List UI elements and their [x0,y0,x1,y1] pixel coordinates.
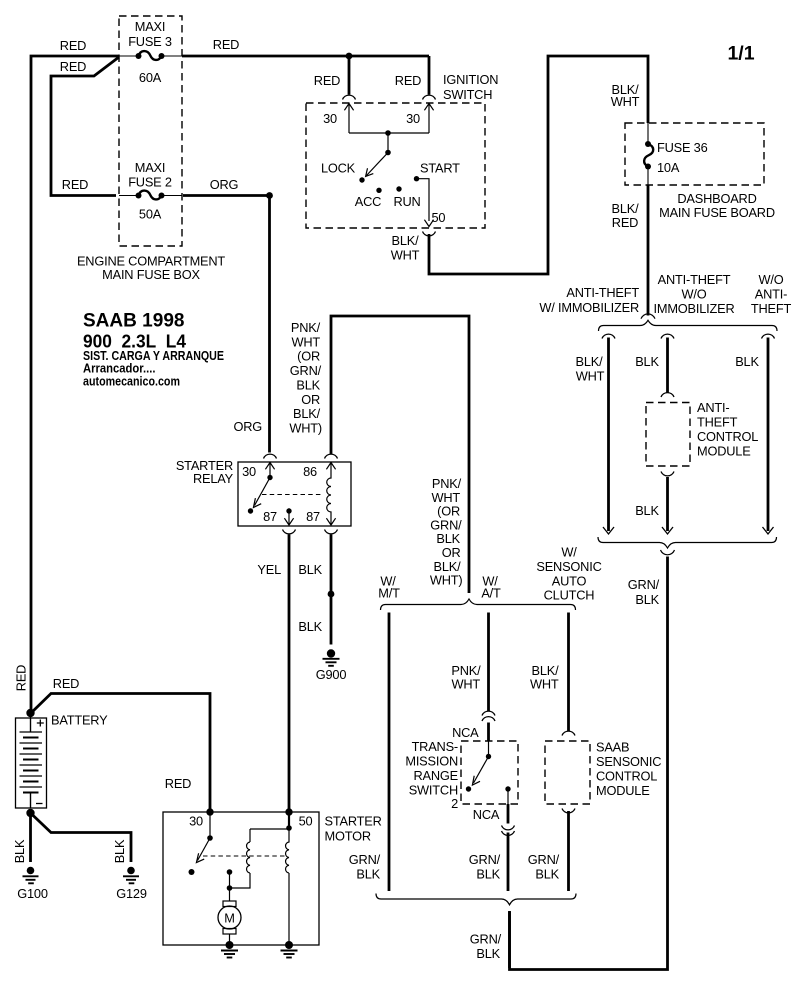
svg-text:automecanico.com: automecanico.com [83,375,180,389]
pin cup sensonic module top [562,731,575,735]
svg-text:LOCK: LOCK [321,161,356,176]
svg-text:FUSE 2: FUSE 2 [128,175,172,190]
relay pin 30 cup [264,454,277,458]
brace split anti-theft variants (top) [599,320,778,331]
svg-text:THEFT: THEFT [751,301,792,316]
node dot starter terminal 50 [285,808,292,815]
svg-text:START: START [420,161,460,176]
range switch contact dot left [466,786,471,791]
starter relay box [238,462,351,526]
relay bottom cup middle [283,530,296,534]
wire GRN/BLK merge down [508,912,511,969]
svg-text:WHT): WHT) [289,421,322,436]
svg-text:MAXI: MAXI [135,19,166,34]
svg-text:GRN/: GRN/ [470,932,502,947]
svg-text:BLK: BLK [296,377,320,392]
svg-text:WHT: WHT [611,94,640,109]
wire RED fuse3 to ignition switch [182,56,429,95]
range switch feed [488,741,490,757]
pin cup anti-theft module bottom [661,472,674,476]
svg-text:OR: OR [301,392,320,407]
svg-text:ANTI-: ANTI- [697,400,729,415]
wire BLK/WHT ignition 50 to dashboard fuse board [429,56,648,274]
relay switch pivot dot [267,475,272,480]
svg-text:TRANS-: TRANS- [412,739,458,754]
starter motor box [163,812,319,945]
svg-text:PNK/: PNK/ [291,320,321,335]
wire BLK battery to G129 [31,813,132,862]
pin 30 left connector cup [343,95,356,99]
svg-text:BLK: BLK [635,592,659,607]
svg-text:ANTI-THEFT: ANTI-THEFT [658,272,731,287]
wire BLK/WHT immobilizer branch (left) [607,338,610,532]
svg-text:BLK: BLK [635,503,659,518]
wire START contact to pin 50 [417,179,430,221]
svg-text:MAIN FUSE BOX: MAIN FUSE BOX [102,267,200,282]
svg-text:G129: G129 [116,886,147,901]
wire RED battery to starter motor [31,694,210,811]
svg-text:WHT: WHT [391,248,420,263]
svg-text:G900: G900 [316,667,347,682]
node dot winding tap [286,825,292,831]
wire W/ M/T branch [388,613,391,892]
range switch contact dot right [505,786,510,791]
svg-text:ORG: ORG [233,419,262,434]
starter terminal 50 lead [288,812,290,828]
relay switch arm arrow [255,478,271,506]
connector cap top right branch [762,334,775,338]
contact dot RUN [396,186,401,191]
wire end tail below brace4 [661,550,675,555]
range switch arm arrow [474,757,489,784]
svg-text:BLK/: BLK/ [576,354,604,369]
svg-text:30: 30 [189,814,203,829]
pin cup anti-theft module top [661,393,674,397]
svg-text:SAAB 1998: SAAB 1998 [83,311,185,332]
engine compartment main fuse box (dashed) [119,16,182,246]
starter switch arm arrow [198,838,211,861]
svg-text:G100: G100 [17,886,48,901]
svg-text:MISSION: MISSION [405,754,458,769]
svg-text:RED: RED [165,776,191,791]
svg-text:MAXI: MAXI [135,160,166,175]
wire ignition interior bus [349,104,429,153]
svg-text:GRN/: GRN/ [528,852,560,867]
relay coil pin arrowhead down [326,518,335,525]
svg-text:ACC: ACC [355,194,381,209]
node dot motor feed [227,885,233,891]
svg-text:MODULE: MODULE [697,444,751,459]
wire BLK middle branch lower [666,477,669,531]
svg-text:RED: RED [60,59,86,74]
relay pin 87 middle dot [286,508,291,513]
svg-text:(OR: (OR [437,504,460,519]
wire winding bus [250,829,289,842]
svg-text:GRN/: GRN/ [349,852,381,867]
svg-text:FUSE 36: FUSE 36 [657,140,708,155]
relay pin 30 arrowhead [265,463,274,470]
arrowhead bottom left branch [603,527,614,534]
svg-text:GRN/: GRN/ [469,852,501,867]
svg-text:WHT): WHT) [430,573,463,588]
svg-text:W/ IMMOBILIZER: W/ IMMOBILIZER [539,300,639,315]
svg-text:50: 50 [299,814,313,829]
relay bottom cup right [325,530,338,534]
node dot starter terminal 30 [206,808,213,815]
svg-text:WHT: WHT [576,369,605,384]
dashboard main fuse board box (dashed) [625,123,764,185]
relay coil [327,463,331,525]
starter actuation dashed line [203,855,285,857]
contact dot LOCK [359,177,364,182]
node dot rotor pivot [385,150,391,156]
inline connector NCA upper (double arcs) [482,711,495,715]
svg-text:BLK: BLK [635,354,659,369]
range switch pivot dot [486,754,491,759]
label PNK/WHT (OR GRN/BLK OR BLK/WHT) stack 1 [289,320,322,436]
svg-text:BATTERY: BATTERY [51,713,108,728]
pin 30 left arrowhead [344,104,353,111]
wire BLK w/o anti-theft branch (right) [767,338,770,532]
fuse FUSE 36 10A [644,123,707,185]
svg-text:30: 30 [323,111,337,126]
svg-text:(OR: (OR [297,349,320,364]
svg-text:M: M [224,911,234,926]
wire W/ A/T branch upper [487,613,490,712]
ignition switch box (dashed) [306,103,485,228]
svg-text:ANTI-: ANTI- [755,287,787,302]
svg-text:BLK: BLK [298,562,322,577]
svg-text:30: 30 [242,464,256,479]
svg-text:RED: RED [395,73,421,88]
relay actuation dashed line [262,494,322,496]
svg-text:87: 87 [306,509,320,524]
pin cup sensonic module bottom [562,809,575,813]
pull-in winding lower lead [230,873,251,888]
svg-text:RED: RED [62,177,88,192]
svg-text:WHT: WHT [530,677,559,692]
wire PNK/WHT relay 86 to W/AT brace [331,316,469,593]
svg-text:BLK: BLK [112,839,127,863]
node dot bus center [385,130,391,136]
connector cap top left branch [602,334,615,338]
pin 30 right arrowhead [424,104,433,111]
svg-text:IMMOBILIZER: IMMOBILIZER [654,301,735,316]
svg-text:WHT: WHT [431,490,460,505]
wire BLK middle branch upper [666,338,669,393]
svg-text:GRN/: GRN/ [290,363,322,378]
label PNK/WHT (OR GRN/BLK OR BLK/WHT) stack 2 [430,476,463,588]
svg-text:CONTROL: CONTROL [697,429,758,444]
svg-text:CONTROL: CONTROL [596,769,657,784]
svg-text:OR: OR [442,545,461,560]
starter switch pivot dot [207,835,213,841]
svg-text:86: 86 [303,464,317,479]
svg-text:BLK: BLK [476,867,500,882]
svg-text:SWITCH: SWITCH [443,87,492,102]
starter motor contact dot upper [227,869,233,875]
starter hold-in winding coil [286,828,289,945]
inline connector NCA lower (double arcs) [502,826,515,830]
starter switch contact dot [189,869,195,875]
svg-text:BLK/: BLK/ [434,559,462,574]
svg-text:BLK: BLK [12,839,27,863]
svg-text:DASHBOARD: DASHBOARD [677,191,756,206]
fuse MAXI FUSE 3 60A [119,19,182,85]
pin 50 connector cup [423,232,436,236]
svg-text:PNK/: PNK/ [432,476,462,491]
svg-text:SAAB: SAAB [596,740,629,755]
svg-text:YEL: YEL [257,562,281,577]
svg-text:NCA: NCA [473,807,500,822]
brace merge transmission variants (bottom) [376,894,576,905]
pin 30 right connector cup [423,95,436,99]
relay contact dot 87a [248,508,253,513]
svg-text:W/O: W/O [759,272,784,287]
svg-text:RANGE: RANGE [413,768,458,783]
svg-text:50A: 50A [139,207,162,222]
svg-text:THEFT: THEFT [697,415,738,430]
svg-text:AUTO: AUTO [552,573,587,588]
svg-text:STARTER: STARTER [325,814,382,829]
saab sensonic control module box (dashed) [545,741,590,804]
svg-text:RED: RED [60,38,86,53]
svg-text:IGNITION: IGNITION [443,72,498,87]
relay pin 86 arrowhead [326,463,335,470]
svg-text:30: 30 [406,111,420,126]
svg-text:A/T: A/T [481,586,501,601]
svg-text:10A: 10A [657,160,680,175]
wire sensonic branch lower [567,811,570,891]
anti-theft control module box (dashed) [646,403,690,467]
motor M armature [218,888,241,945]
svg-text:ANTI-THEFT: ANTI-THEFT [566,285,639,300]
svg-text:Arrancador....: Arrancador.... [83,362,156,376]
wire end tail above brace3 [641,314,655,319]
svg-text:50: 50 [432,210,446,225]
node junction dot ignition feed [346,53,353,60]
wire YEL relay 87 to starter motor [288,535,291,811]
transmission range switch box (dashed) [461,741,518,804]
wire sensonic branch upper [567,613,570,732]
svg-text:W/O: W/O [682,287,707,302]
svg-text:MAIN FUSE BOARD: MAIN FUSE BOARD [659,205,775,220]
svg-text:BLK: BLK [436,531,460,546]
svg-text:WHT: WHT [291,334,320,349]
svg-text:BLK: BLK [535,867,559,882]
svg-text:RELAY: RELAY [193,471,234,486]
svg-text:2: 2 [451,796,458,811]
wire BLK relay 87 to G900 [330,535,333,645]
relay pin 87 middle lead [288,511,290,524]
svg-text:WHT: WHT [451,677,480,692]
ground G100 [17,867,48,901]
fuse MAXI FUSE 2 50A [119,160,182,222]
starter motor contact lead [229,872,231,888]
svg-text:60A: 60A [139,70,162,85]
svg-text:SENSONIC: SENSONIC [596,754,661,769]
svg-text:BLK/: BLK/ [392,233,420,248]
wire ORG fuse2 to starter relay [183,196,270,453]
arrowhead bottom middle branch [662,527,673,534]
svg-text:M/T: M/T [378,586,400,601]
svg-text:CLUTCH: CLUTCH [544,588,595,603]
connector cap top middle branch [661,334,674,338]
wire RED battery feed top-left [31,56,119,713]
wire W/ A/T into range switch [487,723,490,742]
svg-text:BLK: BLK [476,946,500,961]
node splice dot BLK [328,591,335,598]
relay pin 86 cup [325,454,338,458]
brace split transmission variants [381,599,576,610]
svg-text:ORG: ORG [210,177,239,192]
svg-text:BLK: BLK [735,354,759,369]
ground starter motor case right [281,941,298,958]
svg-text:RED: RED [14,665,29,691]
ignition rotor arm arrow to LOCK [367,153,389,176]
svg-text:FUSE 3: FUSE 3 [128,34,172,49]
range switch output lead [507,789,509,804]
wire RED second feed to MAXI FUSE 2 [51,57,119,196]
svg-text:RED: RED [213,37,239,52]
relay pin 87 middle arrowhead down [284,518,293,525]
contact dot START [414,176,419,181]
wire BLK battery to G100 [29,813,32,862]
wire GRN/BLK below connector [507,833,510,892]
starter solenoid switch feed [209,812,211,838]
svg-text:87: 87 [263,509,277,524]
ground starter motor case left [221,941,238,958]
wire BLK/RED fuse36 to anti-theft brace [647,185,650,316]
relay switch feed [269,463,271,478]
wire below range switch [507,804,510,824]
svg-text:RED: RED [314,73,340,88]
ground G129 [116,867,147,901]
svg-text:W/: W/ [561,545,577,560]
pin 50 arrowhead down [424,220,433,227]
ground G900 [316,649,347,682]
svg-text:NCA: NCA [452,725,479,740]
svg-text:RED: RED [612,215,638,230]
svg-text:RUN: RUN [393,194,420,209]
svg-text:1/1: 1/1 [727,43,754,65]
contact dot ACC [376,188,381,193]
svg-text:GRN/: GRN/ [628,577,660,592]
node junction dot ORG [266,192,273,199]
svg-text:BLK/: BLK/ [612,201,640,216]
brace merge anti-theft variants (bottom) [598,537,777,548]
svg-text:MOTOR: MOTOR [325,829,371,844]
svg-text:GRN/: GRN/ [430,517,462,532]
svg-text:RED: RED [53,676,79,691]
svg-text:SENSONIC: SENSONIC [536,559,601,574]
svg-text:BLK: BLK [356,867,380,882]
battery [16,709,47,817]
svg-text:BLK/: BLK/ [293,406,321,421]
starter pull-in winding coil [247,842,250,873]
wire GRN/BLK from anti-theft merge [510,557,668,970]
arrowhead bottom right branch [763,527,774,534]
svg-text:MODULE: MODULE [596,783,650,798]
svg-text:BLK: BLK [298,619,322,634]
